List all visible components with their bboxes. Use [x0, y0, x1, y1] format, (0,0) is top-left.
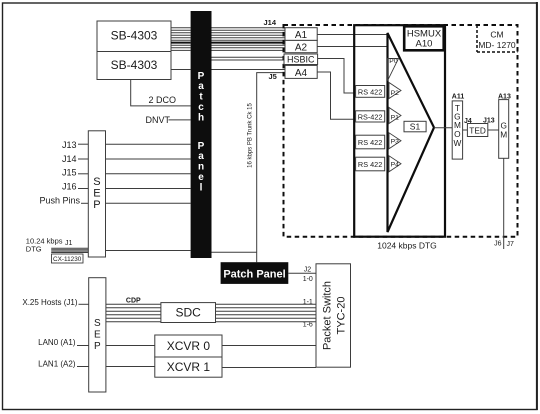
svg-text:2 DCO: 2 DCO: [149, 95, 177, 105]
svg-text:CM: CM: [490, 30, 503, 40]
svg-text:h: h: [198, 112, 204, 123]
svg-text:W: W: [453, 138, 461, 148]
svg-text:P2: P2: [391, 90, 400, 97]
svg-text:LAN1 (A2): LAN1 (A2): [38, 360, 76, 369]
svg-text:P0: P0: [389, 58, 398, 65]
svg-text:RS-422: RS-422: [358, 112, 383, 121]
svg-text:MD- 1270: MD- 1270: [478, 40, 516, 50]
svg-text:LAN0 (A1): LAN0 (A1): [38, 338, 76, 347]
svg-text:E: E: [93, 188, 100, 200]
svg-text:RS 422: RS 422: [358, 87, 382, 96]
svg-text:CDP: CDP: [126, 298, 141, 305]
svg-text:n: n: [198, 162, 204, 173]
svg-text:J13: J13: [62, 140, 77, 150]
svg-text:P3: P3: [391, 139, 400, 146]
svg-text:SB-4303: SB-4303: [111, 29, 158, 43]
svg-text:Push Pins: Push Pins: [39, 196, 80, 206]
svg-text:XCVR 1: XCVR 1: [167, 360, 211, 374]
svg-text:DTG: DTG: [26, 245, 42, 254]
svg-text:TYC-20: TYC-20: [336, 297, 348, 335]
svg-text:A10: A10: [416, 39, 433, 50]
svg-text:SDC: SDC: [176, 306, 202, 320]
svg-text:Patch Panel: Patch Panel: [223, 269, 285, 281]
svg-text:HSBIC: HSBIC: [287, 55, 315, 65]
svg-text:J6: J6: [494, 241, 502, 248]
svg-text:XCVR 0: XCVR 0: [167, 339, 211, 353]
svg-text:SB-4303: SB-4303: [111, 58, 158, 72]
svg-text:c: c: [198, 102, 204, 113]
svg-text:J7: J7: [507, 241, 515, 248]
svg-text:CX-11230: CX-11230: [53, 256, 82, 263]
svg-text:P: P: [198, 141, 205, 152]
svg-text:e: e: [198, 172, 204, 183]
svg-text:a: a: [198, 81, 204, 92]
svg-text:S: S: [94, 318, 101, 329]
svg-text:P1: P1: [391, 115, 400, 122]
svg-text:J16: J16: [62, 182, 77, 192]
svg-text:P: P: [198, 71, 205, 82]
svg-text:RS 422: RS 422: [358, 138, 382, 147]
svg-text:P4: P4: [391, 162, 400, 169]
svg-text:J14: J14: [264, 18, 277, 27]
svg-text:P: P: [93, 199, 100, 211]
svg-text:S: S: [93, 176, 100, 188]
svg-text:l: l: [200, 182, 203, 193]
svg-text:A1: A1: [295, 30, 308, 41]
svg-text:A2: A2: [295, 42, 308, 53]
svg-text:A4: A4: [295, 68, 308, 79]
svg-text:1-0: 1-0: [303, 276, 313, 283]
svg-text:J2: J2: [304, 266, 312, 273]
svg-text:M: M: [500, 130, 507, 140]
svg-text:1024 kbps DTG: 1024 kbps DTG: [377, 241, 437, 251]
svg-text:a: a: [198, 151, 204, 162]
svg-text:Packet Switch: Packet Switch: [322, 281, 334, 350]
svg-text:J15: J15: [62, 168, 77, 178]
svg-text:J1: J1: [65, 240, 73, 247]
svg-text:1-1: 1-1: [303, 299, 313, 306]
svg-text:P: P: [94, 341, 101, 352]
svg-text:S1: S1: [410, 122, 421, 132]
svg-text:1-6: 1-6: [303, 322, 313, 329]
svg-text:RS 422: RS 422: [358, 160, 382, 169]
svg-text:E: E: [94, 330, 101, 341]
svg-text:A11: A11: [452, 93, 465, 100]
svg-text:J5: J5: [269, 72, 277, 81]
svg-text:J14: J14: [62, 154, 77, 164]
svg-text:16 kbps PB Trunk Ck 15: 16 kbps PB Trunk Ck 15: [248, 102, 254, 167]
svg-text:X.25 Hosts (J1): X.25 Hosts (J1): [22, 298, 77, 307]
svg-text:DNVT: DNVT: [146, 115, 171, 125]
svg-text:TED: TED: [469, 125, 486, 135]
